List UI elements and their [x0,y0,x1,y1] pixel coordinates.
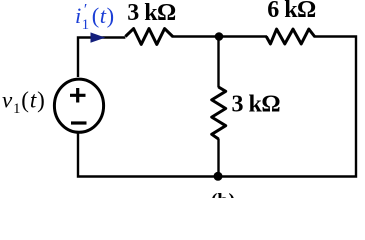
wire top rail left segment [78,38,125,78]
resistor R2 3 kOhm vertical [212,87,226,139]
current arrow i1 [91,32,106,42]
wire R3 to top-right corner and right rail [78,37,356,177]
resistor R1 3 kOhm horizontal [125,29,172,45]
svg-text:3 kΩ: 3 kΩ [232,91,281,117]
svg-text:3 kΩ: 3 kΩ [127,0,176,26]
resistor R3 6 kOhm horizontal [266,29,314,44]
wire R1 to node A [172,35,220,37]
node A junction dot top [215,32,224,41]
wire node A to R3 [218,35,267,37]
V1 plus sign [70,88,86,103]
V1 minus sign [71,121,87,124]
voltage source V1 circle [54,79,103,132]
node B junction dot bottom [214,172,223,181]
svg-text:i′1(t): i′1(t) [75,2,115,34]
wire node A down to R2 [217,36,219,88]
wire R2 down to bottom node [217,139,219,178]
svg-text:6 kΩ: 6 kΩ [267,0,316,23]
svg-text:v1(t): v1(t) [2,88,46,118]
svg-text:(b): (b) [211,190,235,198]
